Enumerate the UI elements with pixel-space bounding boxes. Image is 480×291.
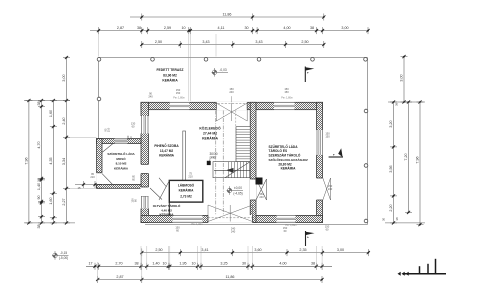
- dimension column right 2 (7,20): [408, 102, 410, 212]
- entrance door opening in top wall: [216, 102, 247, 110]
- wall top (exterior, north): [141, 102, 323, 109]
- svg-text:10: 10: [162, 262, 166, 266]
- level marker -0,03 (terrace): [212, 70, 217, 75]
- svg-text:3,43: 3,43: [202, 40, 209, 44]
- svg-text:3,00: 3,00: [62, 74, 66, 81]
- svg-text:17: 17: [88, 262, 92, 266]
- wing extension line bottom: [70, 187, 97, 189]
- door swing wing (opens inside): [102, 174, 114, 186]
- svg-text:130: 130: [131, 121, 136, 125]
- svg-text:MOSÓ: MOSÓ: [116, 156, 126, 161]
- svg-text:120: 120: [131, 198, 135, 203]
- wing bottom small dim line: [75, 184, 97, 186]
- svg-text:210: 210: [107, 127, 111, 132]
- svg-text:SZÜRETELŐ LÁDA: SZÜRETELŐ LÁDA: [269, 144, 299, 149]
- svg-text:KERÁMIA: KERÁMIA: [160, 211, 175, 216]
- svg-text:SZŐLŐFELDOLGOZÁSHOZ: SZŐLŐFELDOLGOZÁSHOZ: [269, 157, 308, 162]
- svg-text:150: 150: [284, 87, 289, 91]
- svg-text:3,00: 3,00: [341, 26, 348, 30]
- svg-text:83,96 M2: 83,96 M2: [163, 73, 177, 77]
- wall middle (between hall and store room): [250, 102, 256, 222]
- pillar 30/30 (store room, on middle wall): [256, 178, 263, 185]
- svg-text:1,60: 1,60: [49, 197, 53, 204]
- terrace outline right edge: [367, 58, 369, 225]
- dimension row top 3 (2,50 3,43 3,43 2,50): [142, 44, 324, 46]
- svg-text:38: 38: [311, 262, 315, 266]
- svg-text:150: 150: [175, 226, 180, 230]
- svg-text:Pm: 1,80m: Pm: 1,80m: [281, 97, 293, 100]
- svg-text:1,40: 1,40: [37, 183, 41, 190]
- terrace columns right edge: [364, 109, 368, 113]
- svg-text:38: 38: [37, 101, 41, 105]
- partition between pihenő szoba and hall: [183, 131, 186, 180]
- svg-text:3,41: 3,41: [201, 248, 208, 252]
- svg-text:240: 240: [148, 95, 153, 99]
- door swing oltvány tároló: [150, 188, 162, 200]
- svg-text:210: 210: [188, 174, 193, 178]
- svg-text:1,40: 1,40: [152, 262, 159, 266]
- dimension row bottom C (2,87 11,86): [98, 279, 322, 281]
- svg-text:90: 90: [37, 195, 41, 199]
- svg-text:10: 10: [37, 178, 41, 182]
- left tick connector bottom: [24, 222, 75, 224]
- svg-text:27,44 M2: 27,44 M2: [203, 131, 217, 135]
- terrace door opening in bottom wall: [208, 215, 253, 223]
- svg-text:240: 240: [259, 195, 264, 199]
- right tick connector top: [388, 101, 425, 103]
- svg-text:KERÁMIA: KERÁMIA: [159, 152, 175, 157]
- svg-text:240: 240: [231, 227, 236, 231]
- entrance door leaf X (top): [216, 103, 247, 121]
- window in wing top wall: [115, 138, 127, 144]
- svg-text:2,87: 2,87: [117, 26, 124, 30]
- svg-text:TÁROLÓ ÉS: TÁROLÓ ÉS: [269, 148, 288, 153]
- stair direction arrow: [214, 169, 250, 171]
- svg-text:38: 38: [395, 103, 399, 107]
- svg-text:3,00: 3,00: [400, 74, 404, 81]
- svg-text:Pm: 1,80m: Pm: 1,80m: [173, 97, 185, 100]
- svg-text:pillér: pillér: [210, 156, 218, 160]
- window W5 in bottom wall (lábmosó): [173, 215, 203, 223]
- svg-text:30: 30: [382, 218, 386, 222]
- svg-text:2,50: 2,50: [301, 40, 308, 44]
- svg-text:28,80 M2: 28,80 M2: [278, 162, 292, 166]
- svg-text:150: 150: [229, 87, 234, 91]
- terrace door leaf X (bottom): [208, 205, 253, 222]
- svg-text:1,95: 1,95: [179, 262, 186, 266]
- window W1 in top wall: [170, 102, 190, 110]
- wing wall top: [97, 139, 141, 144]
- svg-text:3,00: 3,00: [337, 248, 344, 252]
- svg-text:3,34: 3,34: [62, 158, 66, 165]
- svg-text:210: 210: [90, 175, 95, 179]
- svg-text:LÁBMOSÓ: LÁBMOSÓ: [178, 183, 195, 188]
- svg-text:KERÁMIA: KERÁMIA: [179, 188, 195, 193]
- svg-text:10: 10: [191, 262, 195, 266]
- wall left (exterior, west): [141, 102, 149, 222]
- extension lines bottom: [140, 246, 142, 270]
- svg-text:7,96: 7,96: [25, 157, 29, 164]
- dimension row top 2 (2,87 38 2,59 10 4,11 30 4,00 38 3,00): [90, 30, 368, 32]
- svg-text:150: 150: [259, 192, 264, 196]
- section dash-dot line b: [222, 111, 224, 216]
- svg-text:7,20: 7,20: [404, 153, 408, 160]
- dimension column left 2 (38 4,70 10 1,40 10 90 38): [41, 101, 43, 223]
- svg-text:-0,03: -0,03: [219, 68, 226, 72]
- svg-text:2,87: 2,87: [116, 275, 123, 279]
- svg-text:FEDETT TERASZ: FEDETT TERASZ: [157, 68, 184, 72]
- section dash-dot line a: [215, 111, 217, 216]
- door opening in middle wall: [250, 179, 256, 200]
- level marker -0,15 (outside, bottom-left): [53, 253, 58, 258]
- svg-text:150: 150: [176, 91, 181, 95]
- svg-text:2,40: 2,40: [62, 117, 66, 124]
- window W3 in left wall (pihenő): [141, 116, 150, 134]
- svg-text:150: 150: [328, 184, 333, 188]
- svg-text:KERÁMIA: KERÁMIA: [162, 78, 178, 83]
- svg-text:13,47 M2: 13,47 M2: [160, 149, 174, 153]
- door opening wing left wall: [96, 173, 102, 185]
- wall right (exterior, east): [317, 102, 323, 222]
- svg-text:240: 240: [328, 187, 333, 191]
- svg-text:150: 150: [283, 226, 288, 230]
- svg-text:11,86: 11,86: [223, 12, 232, 16]
- terrace outline top edge: [99, 57, 368, 59]
- terrace door threshold dashed: [208, 217, 253, 219]
- wing wall left: [97, 139, 102, 189]
- svg-text:240: 240: [231, 230, 236, 234]
- svg-text:4,00: 4,00: [283, 26, 290, 30]
- stair treads lower flight: [227, 162, 229, 178]
- door swing middle wall (into store room): [256, 179, 267, 200]
- svg-text:4,70: 4,70: [37, 141, 41, 148]
- svg-text:4,00: 4,00: [279, 262, 286, 266]
- level marker +0,00 hall: [227, 188, 232, 193]
- svg-text:2,73 M2: 2,73 M2: [180, 195, 192, 199]
- svg-text:8,10 M2: 8,10 M2: [116, 162, 127, 166]
- dimension row bottom B (17 2,70 38 1,40 10 1,95 10 3,25 30 4,00 38): [86, 265, 332, 267]
- entrance arrow (north, top): [304, 67, 306, 83]
- lábmosó west wall extension to bottom wall: [168, 202, 170, 215]
- svg-text:30: 30: [244, 26, 248, 30]
- svg-text:-0,15: -0,15: [60, 251, 67, 255]
- svg-text:3,56: 3,56: [389, 165, 393, 172]
- extension line bottom x=97.7: [97, 262, 99, 281]
- door opening left wall to wing: [141, 164, 150, 173]
- wing extension line top: [70, 136, 97, 138]
- svg-text:10: 10: [181, 26, 185, 30]
- terrace outline bottom edge: [145, 224, 368, 226]
- svg-text:2,59: 2,59: [164, 26, 171, 30]
- svg-text:Pm: 1,40m: Pm: 1,40m: [191, 224, 202, 226]
- svg-text:38: 38: [134, 262, 138, 266]
- svg-text:2,50: 2,50: [155, 40, 162, 44]
- dimension column left 4 (3,00 2,40 3,34 2,27): [66, 58, 68, 223]
- svg-text:120: 120: [126, 135, 130, 140]
- svg-text:38: 38: [137, 26, 141, 30]
- terrace columns top row: [97, 58, 101, 62]
- svg-text:4,40 M2: 4,40 M2: [161, 208, 172, 212]
- stair upper flight outline: [236, 127, 250, 162]
- svg-text:KÖZLEKEDŐ: KÖZLEKEDŐ: [199, 125, 221, 130]
- wing wall bottom: [97, 184, 141, 188]
- dimension right 3,00 (terrace depth): [403, 57, 405, 102]
- svg-text:2,35: 2,35: [299, 248, 306, 252]
- svg-text:3,43: 3,43: [255, 40, 262, 44]
- entrance arrow (south, bottom): [305, 231, 307, 246]
- svg-text:38: 38: [310, 26, 314, 30]
- canopy dashed line over entrance: [214, 103, 249, 105]
- svg-text:(-5,00): (-5,00): [59, 256, 68, 260]
- entrance arrow (east, right door): [329, 156, 343, 158]
- terrace outline left edge: [98, 58, 100, 139]
- pillar 30/30 (hall): [207, 161, 211, 165]
- door swing right wall (opens to terrace): [323, 178, 331, 200]
- wing top-wall door swing: [102, 144, 113, 153]
- extension lines top: [188, 34, 190, 101]
- svg-text:SZERSZÁM TÁROLÓ: SZERSZÁM TÁROLÓ: [269, 153, 301, 158]
- svg-text:(-4,65): (-4,65): [233, 191, 242, 195]
- svg-text:KERÁMIA: KERÁMIA: [114, 165, 129, 170]
- stair lower flight outline: [213, 162, 250, 178]
- svg-text:7,96: 7,96: [416, 156, 420, 163]
- svg-text:1,60: 1,60: [49, 110, 53, 117]
- dimension column right 1 (3,56 2,20 2,10): [393, 102, 395, 223]
- svg-text:2,70: 2,70: [115, 262, 122, 266]
- graphic scale bar: [403, 273, 446, 275]
- lábmosó door swing: [159, 181, 169, 200]
- left tick connector top: [24, 100, 70, 102]
- wall bottom (exterior, south): [141, 215, 323, 222]
- svg-text:2,27: 2,27: [62, 198, 66, 205]
- window W2 in top wall: [274, 102, 295, 110]
- svg-text:3,60: 3,60: [254, 248, 261, 252]
- svg-text:4,35: 4,35: [49, 157, 53, 164]
- svg-text:4,11: 4,11: [218, 26, 225, 30]
- svg-text:SZÜRETELŐ LÁDA: SZÜRETELŐ LÁDA: [107, 151, 135, 156]
- svg-text:KERÁMIA: KERÁMIA: [202, 136, 218, 141]
- svg-text:38: 38: [395, 217, 399, 221]
- right tick connector bottom: [385, 222, 425, 224]
- dimension column left 3 (1,60 4,35 1,60): [52, 101, 54, 223]
- svg-text:150: 150: [325, 135, 330, 139]
- svg-text:OLTVÁNY TÁROLÓ: OLTVÁNY TÁROLÓ: [153, 203, 181, 208]
- svg-text:150: 150: [325, 225, 330, 229]
- svg-text:PIHENŐ SZOBA: PIHENŐ SZOBA: [154, 143, 179, 148]
- svg-text:3,25: 3,25: [220, 262, 227, 266]
- stair treads upper flight: [236, 128, 250, 130]
- extension line bottom x=141.8: [141, 248, 143, 281]
- dimension row top 1 (11,86): [130, 16, 324, 18]
- window in right wall (store room): [316, 130, 323, 155]
- stair dashed edge line: [235, 111, 237, 162]
- window W4 in left wall (oltvány tároló): [141, 197, 150, 209]
- svg-text:150: 150: [284, 90, 289, 94]
- dimension column right 3 (7,96): [419, 102, 421, 225]
- svg-text:3,20: 3,20: [389, 120, 393, 127]
- door opening left wall (oltvány): [141, 187, 150, 197]
- terrace column left edge: [97, 97, 101, 101]
- svg-text:11,86: 11,86: [226, 275, 235, 279]
- lábmosó room (bold outline): [169, 180, 203, 202]
- dimension column left 1 (7,96): [28, 101, 30, 223]
- svg-text:150: 150: [176, 88, 181, 92]
- stair break line: [225, 162, 250, 178]
- svg-text:2,50: 2,50: [155, 248, 162, 252]
- svg-text:KERÁMIA: KERÁMIA: [281, 166, 297, 171]
- door opening in right wall to terrace: [316, 178, 323, 200]
- svg-text:30: 30: [242, 262, 246, 266]
- svg-text:±0,00: ±0,00: [234, 186, 242, 190]
- svg-text:150: 150: [325, 132, 330, 136]
- svg-text:38: 38: [37, 224, 41, 228]
- svg-text:15: 15: [77, 186, 81, 190]
- svg-text:2,20: 2,20: [389, 204, 393, 211]
- svg-text:240: 240: [229, 90, 234, 94]
- window W6 in bottom wall (store room): [277, 215, 296, 223]
- dimension row bottom A (2,50 3,41 3,60 2,35 3,00): [142, 252, 368, 254]
